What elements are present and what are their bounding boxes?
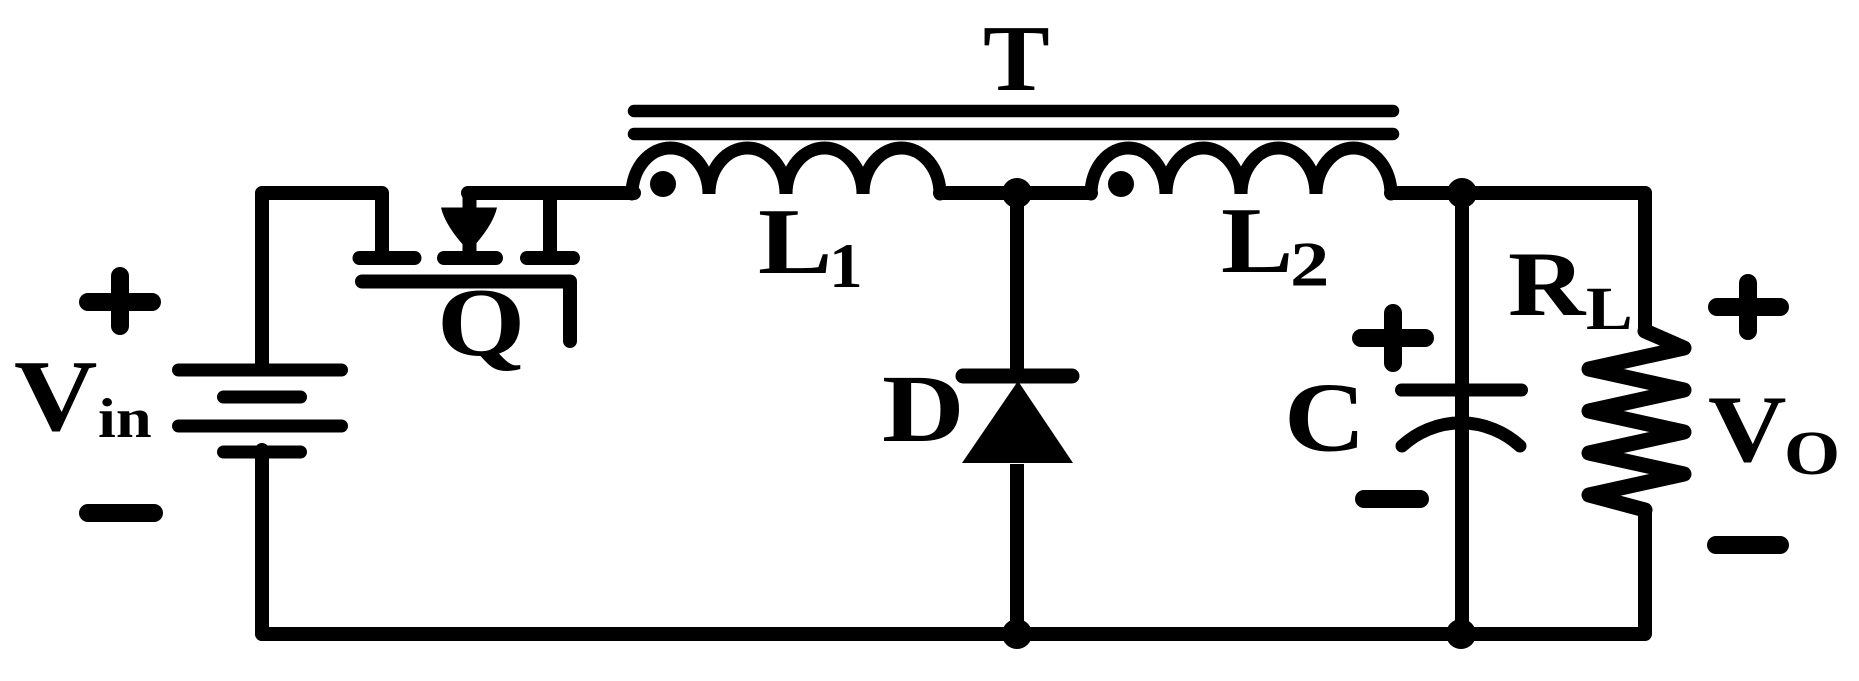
drain pad [360,251,415,265]
wire Q source to L1 [468,186,634,200]
minus sign C [1364,490,1420,508]
svg-text:2: 2 [1290,228,1329,299]
svg-text:V: V [14,339,97,452]
transformer core T [634,111,1393,134]
phase dot L1 [650,171,676,197]
battery V_in [179,370,342,452]
wire RL lower [1638,510,1652,634]
svg-text:C: C [1284,362,1366,472]
body pad [444,251,496,265]
node tap junction [1002,178,1032,208]
node capacitor bottom [1446,619,1476,649]
resistor RL zigzag [1589,331,1684,510]
svg-text:in: in [98,388,152,450]
svg-text:1: 1 [829,232,863,302]
bottom rail wire [262,627,1645,641]
wire capacitor branch upper [1455,193,1469,634]
svg-text:R: R [1508,233,1587,335]
inductor L1 winding [632,148,940,194]
plus sign Vin [88,276,152,326]
svg-text:Q: Q [437,269,525,377]
wire RL branch upper [1638,193,1645,331]
gate bar and terminal [362,282,570,342]
svg-text:L: L [758,190,832,294]
body arrow head [441,208,497,252]
plus sign C [1361,313,1425,363]
wire battery minus lead down [255,450,269,634]
capacitor C [1402,390,1522,446]
wire L1 to L2 through tap node [940,186,1091,200]
inductor L2 winding [1091,148,1391,194]
wire diode anode to bottom rail [1010,464,1024,634]
diode D [962,376,1073,463]
svg-text:L: L [1586,275,1633,343]
node capacitor top [1447,178,1477,208]
wire L2 to output node [1391,186,1645,200]
source stub [543,193,557,251]
minus sign Vo [1716,536,1780,554]
body arrow shaft [463,189,477,255]
svg-text:D: D [882,355,965,462]
transistor Q [360,189,574,341]
plus sign Vo [1717,283,1780,331]
node diode bottom [1002,619,1032,649]
minus sign Vin [88,504,154,522]
wire battery plus lead to Q drain [262,193,382,368]
wire diode branch upper [1010,193,1024,376]
svg-text:T: T [983,6,1050,111]
source pad [527,251,573,265]
svg-text:O: O [1784,418,1840,488]
phase dot L2 [1108,171,1134,197]
svg-text:L: L [1221,189,1293,293]
svg-text:V: V [1708,377,1787,482]
